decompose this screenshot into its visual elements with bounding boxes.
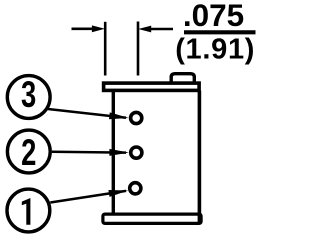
terminal callout circle 1 [7,189,50,232]
pin 3 [131,112,142,123]
leader line to pin 1 [50,191,126,203]
trimmer bottom standoff bar [103,214,201,223]
svg-text:3: 3 [21,74,36,115]
svg-text:2: 2 [21,132,36,173]
svg-text:(1.91): (1.91) [175,33,255,65]
dimension arrow right tail [150,28,174,31]
leader arrowhead pin 1 [108,190,128,197]
pin 1 [130,183,141,194]
dimension fraction bar [184,30,256,34]
dimension extension line right [137,22,140,76]
dimension arrow left tail [72,27,94,30]
terminal number 1 [22,198,31,225]
leader arrowhead pin 3 [109,112,129,119]
dimension arrow right head [138,26,151,33]
dimension arrow left head [92,25,105,32]
dimension extension line left [104,22,107,76]
trimmer top cap [104,83,200,90]
svg-text:.075: .075 [183,0,244,33]
terminal callout circle 2 [7,130,50,173]
leader arrowhead pin 2 [109,149,128,156]
trimmer adjuster bump [171,74,194,84]
terminal callout circle 3 [7,76,50,119]
leader line to pin 3 [48,109,126,118]
leader line to pin 2 [52,151,126,154]
pin 2 [131,147,142,158]
trimmer body left edge [112,91,115,214]
trimmer body right edge [198,91,202,223]
